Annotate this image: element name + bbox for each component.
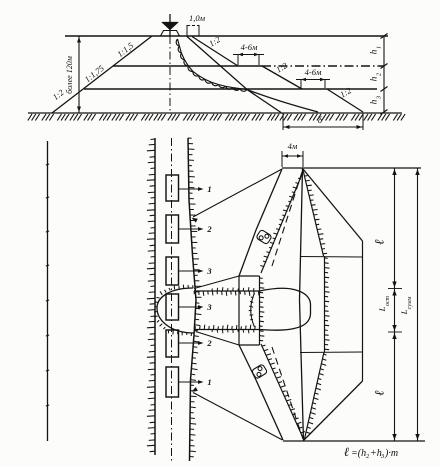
left rail ruler: [154, 138, 156, 455]
upper vertex to track: [194, 276, 239, 289]
callout arrow 3 wagon 3: [179, 270, 202, 272]
svg-text:1: 1: [376, 46, 383, 49]
svg-text:L: L: [377, 306, 387, 312]
track centerline dash-dot: [171, 138, 173, 462]
svg-text:ℓ: ℓ: [344, 445, 349, 459]
middle vertical hatched: [324, 256, 326, 352]
dump wagon symbol upper: [256, 229, 272, 244]
svg-text:1,0м: 1,0м: [189, 13, 206, 23]
svg-text:ℓ: ℓ: [372, 390, 387, 396]
upper crest slope hatched: [261, 173, 303, 273]
upper fan left edge: [239, 169, 282, 276]
lower slope edge hatched: [305, 352, 325, 439]
lower dashed line: [272, 347, 303, 439]
scalloped dump slope: [176, 39, 247, 91]
dimension L-summ: [417, 168, 419, 441]
berm level line h1-h2: [113, 65, 262, 67]
slope 1:2 second stage: [262, 66, 302, 89]
svg-text:h: h: [370, 49, 380, 54]
lower apex to track arrow: [193, 393, 283, 441]
crest level line: [65, 35, 388, 37]
corridor top edge: [194, 290, 260, 292]
svg-text:2: 2: [206, 338, 212, 348]
inner slope line: [187, 37, 281, 113]
closure tongue outline: [260, 288, 311, 330]
dump wagon symbol lower: [251, 364, 267, 379]
dimension 4m: [281, 151, 283, 167]
geodetic crest marker: [169, 14, 171, 36]
svg-text:4-6м: 4-6м: [305, 67, 322, 77]
wagon 6: [166, 367, 179, 397]
svg-text:h: h: [370, 76, 380, 81]
wagon 4: [166, 294, 179, 320]
plan bottom line: [283, 440, 425, 442]
upper fan right edge: [303, 169, 363, 241]
callout arrow 2 wagon 2: [179, 228, 202, 230]
dimension line height bolee 120m: [78, 36, 80, 113]
dimension l and L-ost: [394, 168, 396, 441]
inner dump curve: [251, 293, 255, 327]
slope 1:2 first stage: [192, 37, 238, 67]
callout arrow 1 wagon 1: [179, 188, 202, 190]
svg-text:1: 1: [207, 184, 211, 194]
ground line with hatching: [28, 112, 402, 114]
dimension delta: [282, 113, 284, 130]
corridor bottom edge: [195, 329, 260, 331]
svg-text:4м: 4м: [288, 141, 298, 151]
stage horizontal lower: [239, 344, 260, 346]
svg-text:сумм: сумм: [407, 296, 413, 309]
left slope 1:2 to 1:1.5: [52, 36, 152, 113]
slope 1:2 third stage: [327, 89, 363, 112]
wagon 2: [166, 215, 179, 243]
svg-text:более 120м: более 120м: [65, 56, 74, 94]
callout arrow 2 wagon 5: [179, 342, 202, 344]
callout arrow 1 wagon 6: [179, 381, 202, 383]
siding track line: [47, 141, 49, 441]
plan top line: [282, 167, 421, 169]
callout arrow 3 wagon 4: [179, 306, 202, 308]
dimension h1 h2 h3: [383, 36, 385, 112]
lower vertex to track: [196, 332, 240, 346]
settled slope curve: [248, 90, 318, 112]
berm level line h2-h3: [84, 88, 377, 90]
lower shelf line: [300, 351, 363, 354]
stage vertical left: [238, 276, 240, 345]
svg-text:ℓ: ℓ: [372, 239, 387, 245]
lower fan right edge: [304, 381, 363, 440]
svg-text:4-6м: 4-6м: [241, 42, 258, 52]
stage vertical hatched: [259, 276, 261, 345]
lower crest slope hatched: [261, 344, 304, 439]
lower fan left edge: [239, 345, 283, 440]
svg-text:3: 3: [206, 302, 212, 312]
wagon 3: [166, 257, 179, 285]
right rail ruler curved: [188, 138, 196, 461]
plan axis line: [300, 168, 304, 441]
upper shelf line: [300, 256, 363, 259]
svg-text:)·m: )·m: [384, 448, 398, 459]
upper dashed line: [272, 172, 302, 266]
svg-text:3: 3: [206, 266, 212, 276]
wagon 5: [166, 330, 179, 357]
svg-text:1: 1: [207, 377, 211, 387]
svg-text:ост: ост: [385, 295, 391, 306]
svg-text:2: 2: [206, 224, 212, 234]
stage horizontal upper: [239, 275, 260, 277]
dump edge around wagon 4: [157, 288, 194, 333]
right stage vertical: [362, 241, 364, 381]
section centerline dash-dot: [169, 36, 171, 113]
upper slope edge hatched: [303, 170, 324, 256]
dimension 4-6m upper: [237, 54, 239, 65]
svg-text:h: h: [370, 99, 380, 104]
wagon 1: [166, 175, 179, 201]
svg-text:=(h: =(h: [351, 448, 366, 459]
dimension 4-6m lower: [300, 79, 302, 88]
dimension 1.0m: [186, 25, 188, 36]
upper apex to track arrow: [193, 169, 282, 217]
svg-text:+h: +h: [370, 448, 382, 459]
